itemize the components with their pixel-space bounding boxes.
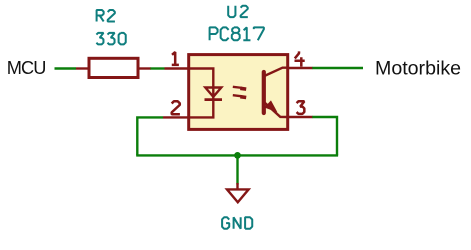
wire junction to GND symbol [236, 155, 238, 184]
LED D1 triangle [205, 88, 221, 97]
LED cathode bar [205, 98, 223, 101]
U2 pin 3 lead [288, 116, 313, 118]
wire U2 pin 2 to ground rail [137, 117, 163, 155]
LED internal anode/cathode wire [190, 69, 213, 118]
U2 pin 4 lead [288, 67, 313, 69]
transistor collector [264, 68, 288, 76]
U2 pin 2 lead [163, 116, 190, 118]
resistor R2 value label 330 [96, 33, 125, 44]
U2 reference label [228, 6, 248, 17]
wire U2 pin 3 to ground rail [312, 117, 337, 155]
wire ground rail [136, 154, 338, 156]
svg-text:MCU: MCU [7, 58, 46, 78]
transistor emitter arrow [266, 102, 276, 111]
pin number 2 [172, 101, 180, 114]
pin number 4 [295, 51, 305, 66]
ground net label GND [222, 217, 252, 228]
svg-text:Motorbike: Motorbike [375, 57, 461, 79]
U2 value label PC817 [210, 27, 264, 40]
wire MCU to resistor [55, 67, 77, 69]
wire U2 pin 4 to Motorbike [312, 67, 363, 69]
optocoupler U2 body [189, 55, 288, 130]
resistor R2 right lead [138, 67, 151, 69]
ground symbol triangle [227, 189, 249, 202]
pin number 1 [172, 52, 179, 65]
resistor R2 reference label R2 [97, 10, 115, 21]
transistor Q1 base bar [262, 72, 266, 113]
coupling arrow lower [233, 95, 242, 96]
wire resistor to U2 pin 1 [150, 67, 165, 69]
resistor R2 body [89, 58, 138, 77]
resistor R2 left lead [76, 67, 89, 69]
junction dot [234, 152, 241, 159]
pin number 3 [297, 101, 305, 114]
coupling arrow upper [233, 87, 242, 88]
U2 pin 1 lead [165, 67, 191, 69]
transistor emitter [265, 103, 288, 117]
ground pin stub [236, 183, 238, 189]
